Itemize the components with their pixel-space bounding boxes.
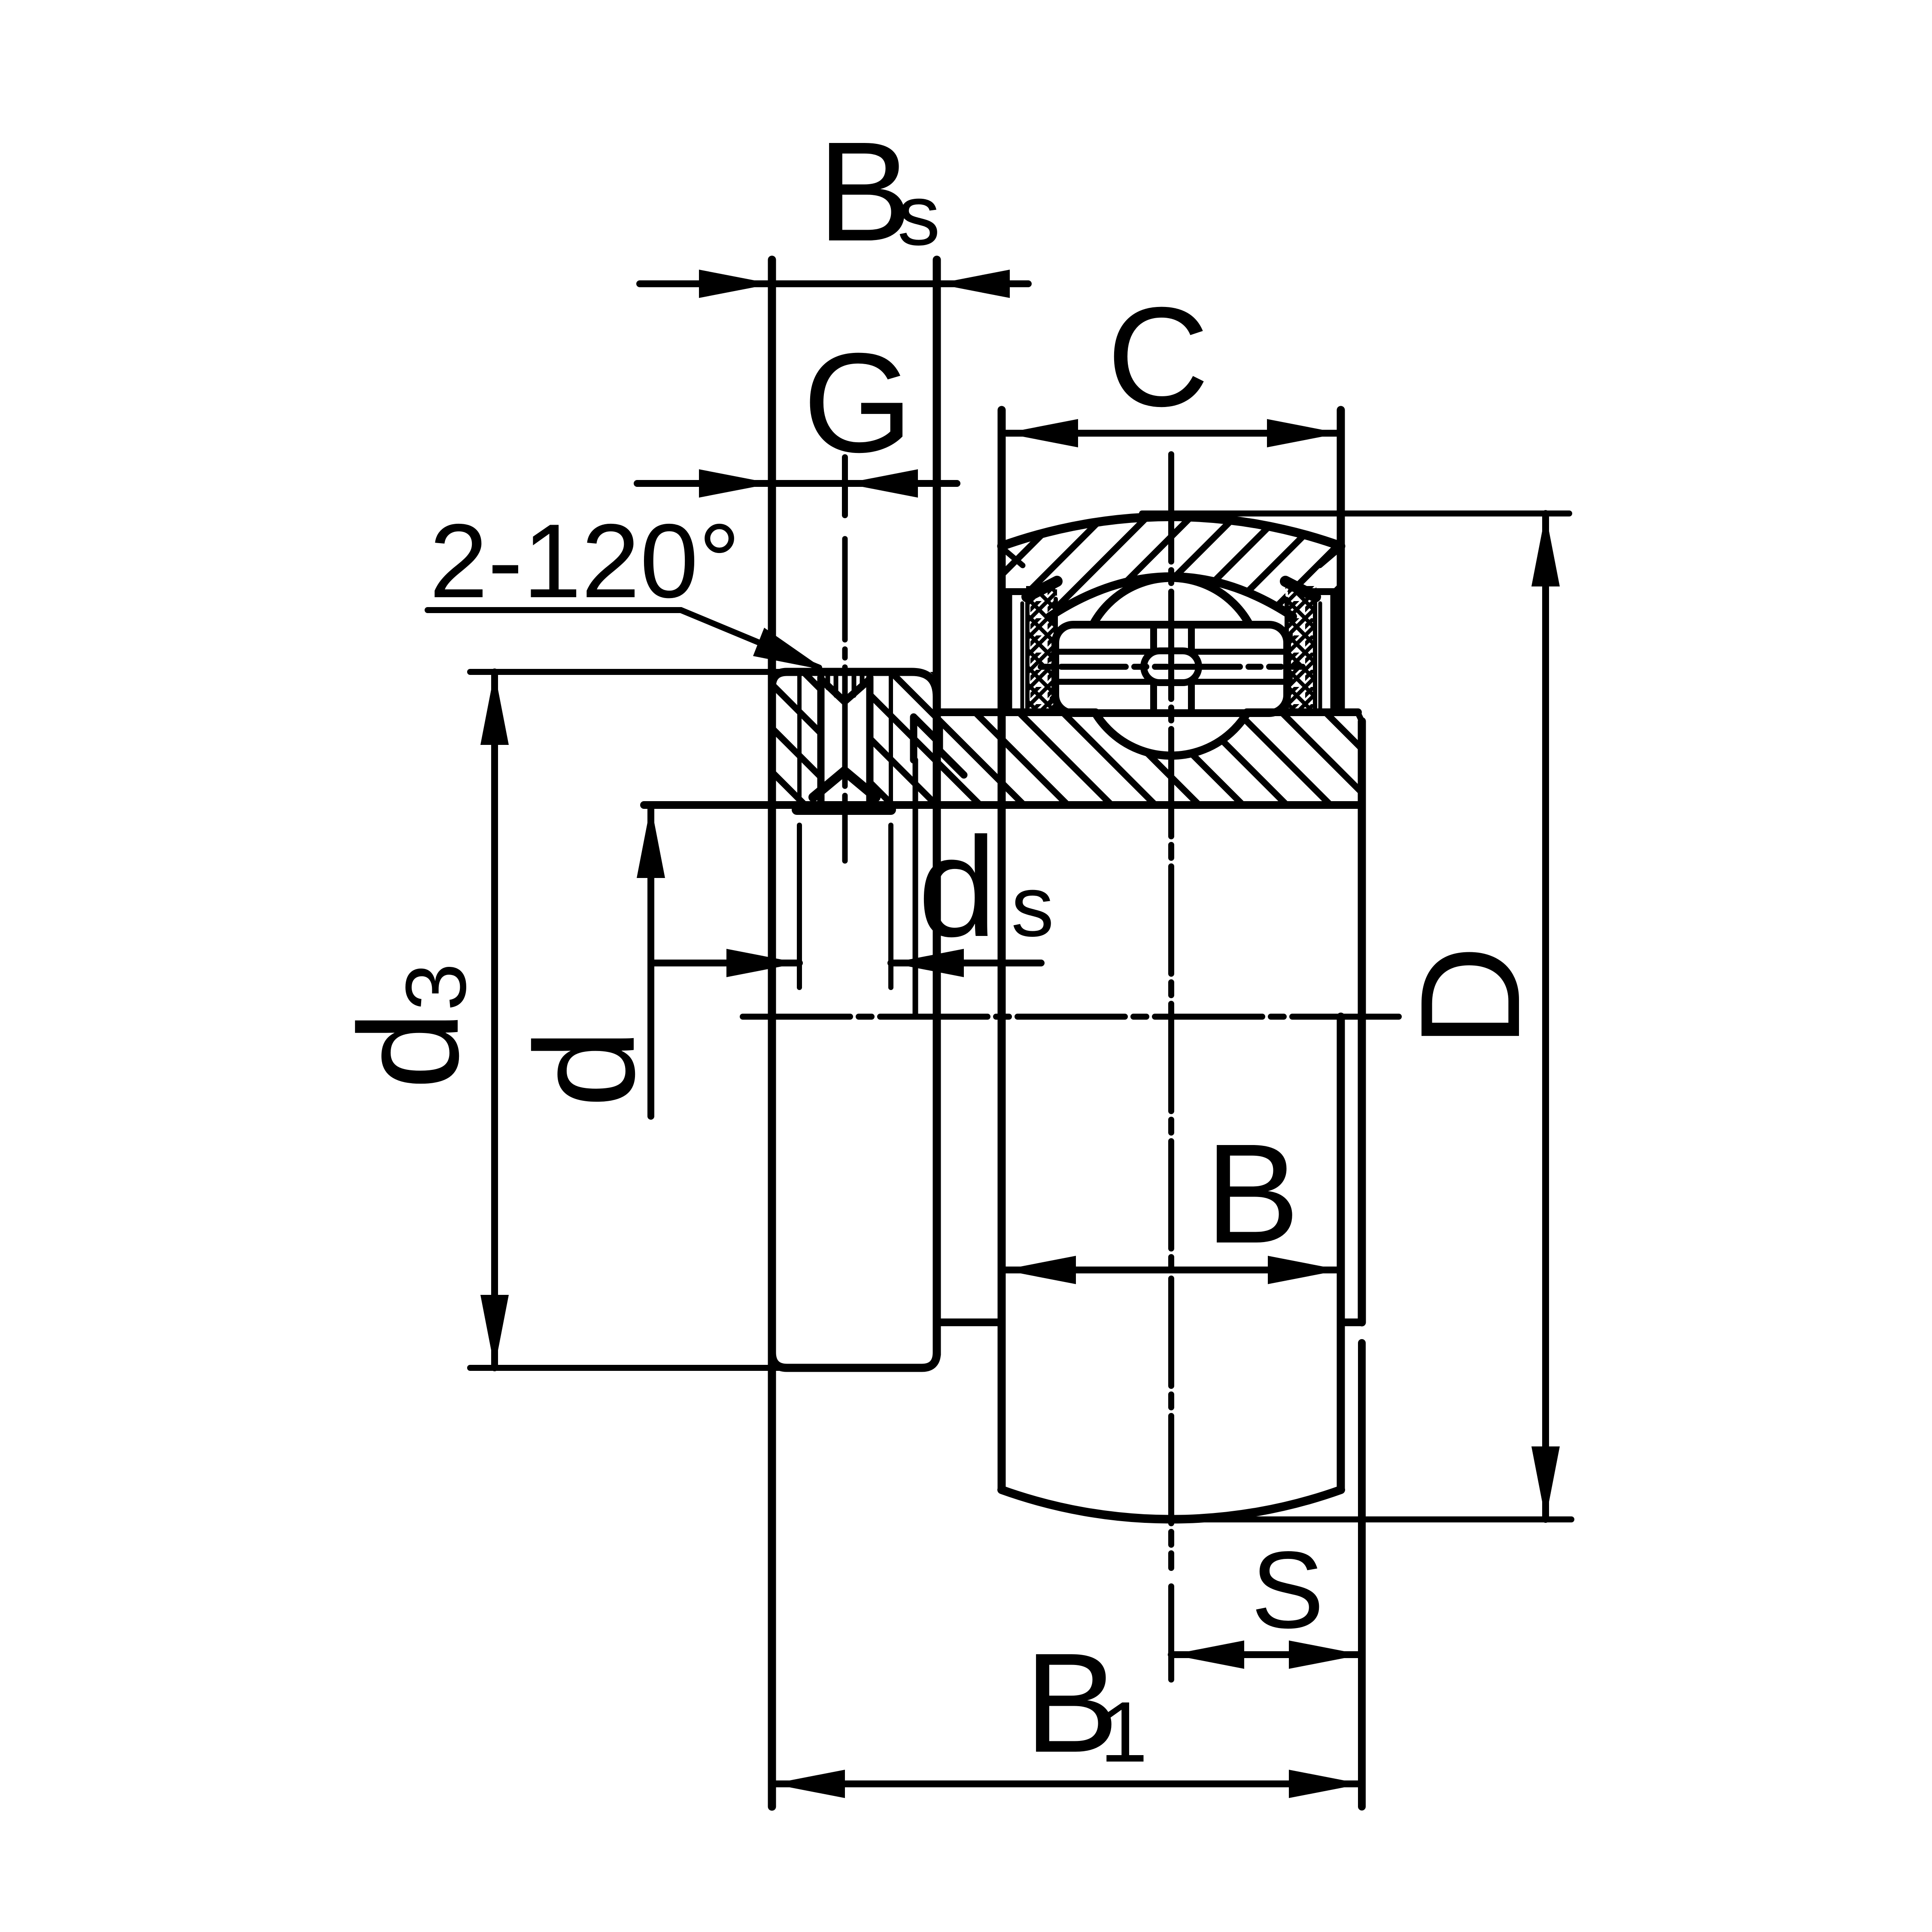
left flinger: [1006, 594, 1012, 708]
ball centerline: [1041, 664, 1303, 670]
cage rivet: [1144, 651, 1199, 683]
svg-text:B: B: [1205, 1114, 1300, 1273]
G dimension line: [637, 480, 957, 487]
svg-text:D: D: [1391, 945, 1549, 1048]
cage outer band: [1055, 625, 1287, 713]
outer ring left face chamfer: [1005, 551, 1023, 565]
ds extension stubs: [797, 825, 802, 987]
outer ring right face chamfer: [1320, 551, 1337, 565]
D dimension line: [1542, 513, 1549, 1519]
2-120 leader: [428, 610, 819, 668]
inner ring top edge right of ball: [1247, 708, 1358, 716]
d3 bottom extension: [470, 1365, 795, 1371]
inner ring top edge left of ball: [940, 708, 1096, 716]
outer ring spherical OD silhouette: [1002, 516, 1341, 546]
cage rivet columns: [1150, 625, 1157, 712]
collar section hatch (\): [772, 672, 937, 805]
seal pocket bottom / flinger top right: [1312, 588, 1338, 595]
d3 dimension line: [491, 672, 498, 1368]
collar right face + BS extension: [933, 260, 941, 1355]
outer ring section hatch (/): [1002, 516, 1341, 713]
svg-text:1: 1: [1100, 1684, 1148, 1780]
inner ring right face: [1358, 721, 1366, 1322]
right seal: [1285, 586, 1316, 709]
svg-text:d: d: [918, 808, 997, 966]
ball: [1082, 578, 1260, 756]
outer ring race arc: [1050, 577, 1293, 617]
B dimension line: [1006, 1267, 1338, 1273]
set screw thread major dia lines: [797, 675, 802, 809]
eccentric recess zigzag: [914, 717, 964, 775]
outer ring left face + C extension + front-view silhouette: [998, 410, 1006, 1490]
inner ring OD bottom silhouette right: [1341, 1318, 1362, 1326]
svg-text:s: s: [1011, 859, 1054, 954]
collar left face + BS/B1 extension: [768, 260, 776, 1807]
front view sphere bottom arc: [1002, 1490, 1341, 1519]
extension edge below zigzag: [913, 760, 918, 1017]
collar top edge: [772, 672, 937, 697]
svg-text:s: s: [897, 167, 940, 263]
inner ring extension OD bottom silhouette left: [940, 1318, 1002, 1326]
outer ring right face front view: [1337, 1017, 1345, 1490]
set screw socket V: [821, 679, 870, 702]
B1 dimension line: [772, 1780, 1362, 1787]
screw axis centerline: [842, 539, 848, 861]
seal pocket bottom / flinger top left: [1004, 588, 1031, 595]
axis centerline: [743, 1014, 1399, 1020]
d dimension arrow: [647, 809, 654, 1116]
D bottom extension: [1176, 1516, 1571, 1522]
collar bottom edge front view: [772, 1352, 937, 1368]
inner ring right extension stub (S/B1): [1358, 1343, 1366, 1807]
ds dimension line: [653, 960, 799, 966]
cage mid lines: [1057, 649, 1285, 655]
main vertical centerline: [1168, 454, 1174, 1568]
S dimension line: [1171, 1651, 1362, 1658]
outer ring right face + C extension: [1337, 410, 1345, 711]
d3 top extension: [470, 669, 795, 675]
svg-text:G: G: [803, 323, 913, 482]
C dimension line: [1006, 430, 1339, 437]
svg-text:d: d: [505, 1029, 664, 1108]
screw tip chevrons: [813, 771, 876, 797]
bore line: [644, 801, 1362, 809]
G right extension stub: [842, 457, 848, 515]
svg-text:C: C: [1107, 277, 1209, 436]
right flinger: [1331, 594, 1337, 708]
inner ring section hatch (\): [940, 712, 1362, 805]
screw tip bar: [797, 805, 891, 815]
svg-text:2-120°: 2-120°: [429, 502, 741, 620]
set screw hole walls: [817, 677, 825, 807]
inner ring right corner chamfer: [1358, 713, 1363, 723]
Bs dimension line: [640, 280, 1028, 287]
left seal: [1026, 586, 1057, 709]
D top extension: [1142, 510, 1569, 516]
svg-text:S: S: [1251, 1529, 1324, 1651]
thread ticks in socket: [826, 673, 830, 688]
